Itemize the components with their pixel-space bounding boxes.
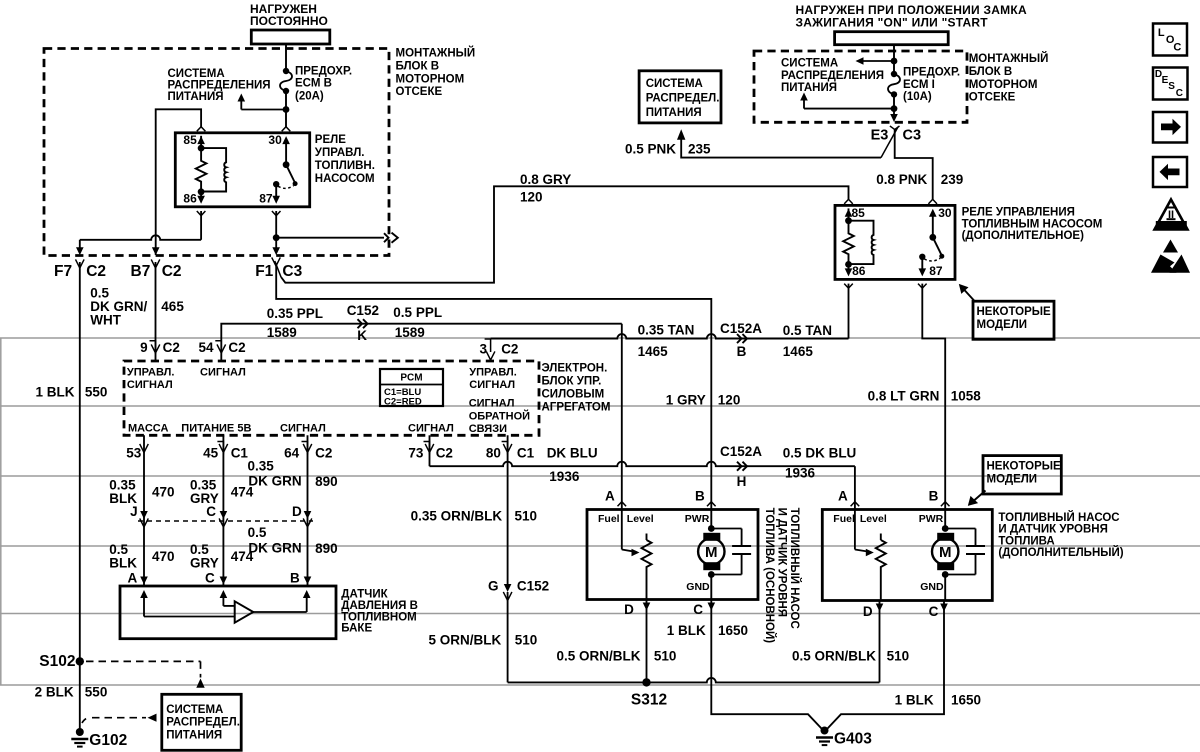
svg-text:0.5 PNK: 0.5 PNK xyxy=(625,142,676,157)
svg-text:9: 9 xyxy=(140,340,148,355)
svg-text:1 BLK: 1 BLK xyxy=(895,693,934,708)
svg-text:1936: 1936 xyxy=(549,469,580,484)
svg-text:54: 54 xyxy=(198,340,214,355)
svg-text:ПРЕДОХР.: ПРЕДОХР. xyxy=(295,66,352,78)
svg-text:УПРАВЛ.: УПРАВЛ. xyxy=(315,147,365,159)
connector F7 C2 xyxy=(76,259,85,268)
svg-text:НЕКОТОРЫЕ: НЕКОТОРЫЕ xyxy=(977,306,1052,318)
connector C152 dashed line xyxy=(138,520,313,522)
svg-text:0.35 PPL: 0.35 PPL xyxy=(267,306,323,321)
svg-text:ЗАЖИГАНИЯ "ON" ИЛИ "START: ЗАЖИГАНИЯ "ON" ИЛИ "START xyxy=(796,15,989,29)
svg-text:C2: C2 xyxy=(501,342,518,357)
fuse block МОНТАЖНЫЙ БЛОК В МОТОРНОМ ОТСЕКЕ left dashed box xyxy=(44,49,389,256)
svg-text:C: C xyxy=(1173,41,1181,53)
wire 0.35 TAN 1465 xyxy=(491,334,849,339)
connector E3 C3 xyxy=(890,126,900,130)
callout НЕКОТОРЫЕ МОДЕЛИ lower xyxy=(983,456,1061,494)
svg-text:МОНТАЖНЫЙ: МОНТАЖНЫЙ xyxy=(396,47,476,60)
svg-text:C2: C2 xyxy=(162,263,182,280)
svg-text:1 BLK: 1 BLK xyxy=(35,385,74,400)
wire 2 BLK 550 S102 to G102 xyxy=(79,661,81,729)
svg-text:ДАТЧИК: ДАТЧИК xyxy=(341,589,388,601)
svg-text:C2: C2 xyxy=(436,446,453,461)
svg-text:B: B xyxy=(290,571,300,586)
svg-text:C2: C2 xyxy=(228,340,245,355)
svg-text:СВЯЗИ: СВЯЗИ xyxy=(469,423,507,435)
wire 5 ORN/BLK 510 to S312 xyxy=(507,592,509,682)
box СИСТЕМА РАСПРЕДЕЛ. ПИТАНИЯ bottom xyxy=(162,694,241,750)
svg-text:B: B xyxy=(737,344,747,359)
wire relay K2 87 to 0.8 LT GRN 1058 xyxy=(918,284,927,289)
svg-text:Fuel: Fuel xyxy=(598,513,620,525)
svg-text:0.35: 0.35 xyxy=(248,459,275,474)
wire relay 87 to connector F1 xyxy=(272,211,281,216)
svg-text:470: 470 xyxy=(152,549,175,564)
svg-text:0.5 TAN: 0.5 TAN xyxy=(783,323,832,338)
fuel tank pressure sensor ДАТЧИК ДАВЛЕНИЯ В ТОПЛИВНОМ БАКЕ xyxy=(120,586,336,639)
svg-text:0.5 DK BLU: 0.5 DK BLU xyxy=(783,446,857,461)
svg-text:РАСПРЕДЕЛ.: РАСПРЕДЕЛ. xyxy=(166,717,240,729)
svg-text:C1: C1 xyxy=(517,446,535,461)
connector pin 64 C2 xyxy=(302,442,308,455)
svg-text:РЕЛЕ: РЕЛЕ xyxy=(315,134,346,146)
svg-text:F7: F7 xyxy=(54,263,72,280)
svg-text:E3: E3 xyxy=(871,128,889,144)
svg-text:C152: C152 xyxy=(347,303,379,318)
svg-text:510: 510 xyxy=(654,649,677,664)
svg-text:C1: C1 xyxy=(231,446,249,461)
svg-text:80: 80 xyxy=(486,446,501,461)
svg-text:C152A: C152A xyxy=(720,444,762,459)
svg-text:890: 890 xyxy=(315,474,338,489)
svg-text:B: B xyxy=(929,489,939,504)
svg-text:G403: G403 xyxy=(834,731,872,748)
svg-text:(ДОПОЛНИТЕЛЬНЫЙ): (ДОПОЛНИТЕЛЬНЫЙ) xyxy=(998,546,1123,559)
node S312 xyxy=(508,678,880,683)
svg-text:1589: 1589 xyxy=(267,325,297,340)
svg-text:Fuel: Fuel xyxy=(833,513,855,525)
svg-text:550: 550 xyxy=(85,685,108,700)
svg-text:АГРЕГАТОМ: АГРЕГАТОМ xyxy=(542,402,611,414)
wire bus to B7 and relay coil pin 85 xyxy=(156,109,201,255)
svg-text:ПИТАНИЯ: ПИТАНИЯ xyxy=(646,107,702,119)
svg-text:C2: C2 xyxy=(163,340,180,355)
svg-text:J: J xyxy=(130,504,138,519)
svg-text:1650: 1650 xyxy=(951,693,981,708)
svg-text:120: 120 xyxy=(520,190,543,205)
connector pin 9 C2 xyxy=(150,341,156,354)
svg-text:РАСПРЕДЕЛ.: РАСПРЕДЕЛ. xyxy=(646,93,720,105)
svg-text:C2=RED: C2=RED xyxy=(384,397,422,408)
svg-text:B7: B7 xyxy=(131,263,151,280)
icon back arrow button xyxy=(1153,157,1187,187)
wire 1 BLK 550 F7 to S102 xyxy=(79,281,81,661)
svg-text:PWR: PWR xyxy=(685,513,710,525)
svg-text:5 ORN/BLK: 5 ORN/BLK xyxy=(429,633,502,648)
ground G102 xyxy=(76,728,84,736)
wire 0.8 PNK 239 to relay K2 pin 30 xyxy=(895,130,933,200)
wire F1/C3 to 0.8 GRY 120 relay K2 coil xyxy=(281,186,849,282)
svg-text:D: D xyxy=(624,602,634,617)
svg-text:(10А): (10А) xyxy=(903,91,932,103)
svg-text:1465: 1465 xyxy=(783,344,814,359)
wire 0.35 ORN/BLK 510 PCM 80 down xyxy=(507,435,509,588)
wire 0.35 BLK 470 xyxy=(143,435,145,586)
svg-text:PWR: PWR xyxy=(919,513,944,525)
svg-text:ТОПЛИВНЫМ НАСОСОМ: ТОПЛИВНЫМ НАСОСОМ xyxy=(962,218,1103,230)
svg-text:СИГНАЛ: СИГНАЛ xyxy=(200,367,246,379)
ground G403 xyxy=(821,727,829,735)
svg-text:1650: 1650 xyxy=(718,623,748,638)
connector pin 80 C1 xyxy=(502,442,508,455)
svg-text:ТОПЛИВН.: ТОПЛИВН. xyxy=(315,160,375,172)
svg-text:0.8 GRY: 0.8 GRY xyxy=(520,172,571,187)
wire 0.35 GRY 474 xyxy=(222,435,224,586)
connector pin 45 C1 xyxy=(217,442,223,455)
svg-text:L: L xyxy=(1158,27,1165,39)
node S102 xyxy=(76,657,84,665)
svg-text:465: 465 xyxy=(161,299,184,314)
svg-text:МОНТАЖНЫЙ: МОНТАЖНЫЙ xyxy=(969,52,1049,65)
svg-text:СИГНАЛ: СИГНАЛ xyxy=(408,423,454,435)
connector F1 C3 xyxy=(272,257,281,266)
svg-text:ПОСТОЯННО: ПОСТОЯННО xyxy=(250,14,328,28)
svg-text:C: C xyxy=(929,604,939,619)
dashed reference S102 to power distribution xyxy=(86,660,201,662)
svg-text:OBD II: OBD II xyxy=(1160,221,1183,230)
fuse block МОНТАЖНЫЙ БЛОК dashed box right xyxy=(754,51,967,122)
svg-text:A: A xyxy=(128,571,138,586)
connector B7 C2 xyxy=(151,259,160,268)
svg-text:0.8 PNK: 0.8 PNK xyxy=(876,172,927,187)
svg-text:C152: C152 xyxy=(517,579,549,594)
svg-text:DK BLU: DK BLU xyxy=(547,446,598,461)
svg-text:85: 85 xyxy=(183,133,197,147)
svg-text:ЭЛЕКТРОН.: ЭЛЕКТРОН. xyxy=(542,363,608,375)
wire 0.35 DK GRN 890 xyxy=(307,435,309,586)
svg-text:C3: C3 xyxy=(903,128,922,144)
svg-text:D: D xyxy=(292,504,302,519)
callout НЕКОТОРЫЕ МОДЕЛИ upper xyxy=(964,289,975,301)
svg-text:МОТОРНОМ: МОТОРНОМ xyxy=(969,79,1038,91)
svg-text:ЕСМ I: ЕСМ I xyxy=(903,79,935,91)
svg-text:C: C xyxy=(1176,88,1183,99)
svg-text:S: S xyxy=(1168,81,1175,92)
svg-text:БЛОК В: БЛОК В xyxy=(396,60,440,72)
svg-text:C: C xyxy=(206,504,216,519)
wire ignition to fuse ECM I xyxy=(893,45,895,74)
svg-text:СИГНАЛ: СИГНАЛ xyxy=(469,398,515,410)
wire F1/C3 down to fuel pump PWR 1 GRY 120 xyxy=(276,266,711,510)
svg-text:СИСТЕМА: СИСТЕМА xyxy=(646,78,703,90)
svg-text:СИГНАЛ: СИГНАЛ xyxy=(280,423,326,435)
svg-text:СИГНАЛ: СИГНАЛ xyxy=(469,379,515,391)
svg-text:M: M xyxy=(705,544,718,561)
svg-text:(20А): (20А) xyxy=(295,90,324,102)
svg-text:БАКЕ: БАКЕ xyxy=(341,623,372,635)
svg-text:S312: S312 xyxy=(631,692,667,709)
svg-text:СИГНАЛ: СИГНАЛ xyxy=(127,379,173,391)
svg-text:2 BLK: 2 BLK xyxy=(35,685,74,700)
svg-text:K: K xyxy=(357,328,367,343)
node fuse output junction xyxy=(283,106,290,113)
svg-text:РАСПРЕДЕЛЕНИЯ: РАСПРЕДЕЛЕНИЯ xyxy=(168,80,271,92)
svg-text:890: 890 xyxy=(315,541,338,556)
svg-text:СИСТЕМА: СИСТЕМА xyxy=(168,68,225,80)
svg-text:C3: C3 xyxy=(282,263,302,280)
svg-text:C152A: C152A xyxy=(720,321,762,336)
svg-text:0.35 ORN/BLK: 0.35 ORN/BLK xyxy=(411,509,503,524)
svg-text:1589: 1589 xyxy=(395,325,425,340)
svg-text:РЕЛЕ УПРАВЛЕНИЯ: РЕЛЕ УПРАВЛЕНИЯ xyxy=(962,207,1075,219)
svg-text:45: 45 xyxy=(203,446,219,461)
svg-text:МАССА: МАССА xyxy=(128,423,168,435)
svg-text:235: 235 xyxy=(688,142,711,157)
svg-text:GND: GND xyxy=(686,581,710,593)
svg-text:ДАВЛЕНИЯ В: ДАВЛЕНИЯ В xyxy=(341,600,418,612)
svg-text:64: 64 xyxy=(284,446,300,461)
svg-text:ОБРАТНОЙ: ОБРАТНОЙ xyxy=(469,410,530,423)
icon LOC button xyxy=(1153,24,1187,56)
dashed reference G102 to power distribution xyxy=(82,718,90,723)
svg-text:30: 30 xyxy=(268,133,282,147)
wire 0.35 PPL 1589 PCM pin 54 xyxy=(221,324,622,361)
svg-text:МОДЕЛИ: МОДЕЛИ xyxy=(977,319,1028,331)
svg-text:G: G xyxy=(488,579,499,594)
svg-text:550: 550 xyxy=(85,385,108,400)
svg-text:510: 510 xyxy=(515,509,538,524)
svg-text:1 BLK: 1 BLK xyxy=(667,623,706,638)
svg-text:F1: F1 xyxy=(255,263,273,280)
svg-text:B: B xyxy=(695,489,705,504)
svg-text:470: 470 xyxy=(152,485,175,500)
wire relay 86 to connector F7 xyxy=(197,211,206,216)
svg-text:1936: 1936 xyxy=(785,466,816,481)
svg-text:30: 30 xyxy=(938,206,952,220)
svg-text:C2: C2 xyxy=(86,263,106,280)
svg-text:D: D xyxy=(863,604,873,619)
wire fuse to connector E3 xyxy=(893,109,895,118)
svg-text:87: 87 xyxy=(929,264,943,278)
svg-text:PCM: PCM xyxy=(400,373,422,384)
svg-text:Level: Level xyxy=(860,513,887,525)
node ignition junction xyxy=(891,58,898,65)
page grid lines xyxy=(0,337,1200,339)
svg-text:ПИТАНИЯ: ПИТАНИЯ xyxy=(781,82,837,94)
svg-text:C: C xyxy=(693,602,703,617)
svg-text:239: 239 xyxy=(941,172,964,187)
svg-text:0.5 ORN/BLK: 0.5 ORN/BLK xyxy=(792,649,876,664)
svg-text:GND: GND xyxy=(920,581,944,593)
wire 0.5 PPL 1589 down to main pump Level pin A xyxy=(621,324,623,510)
svg-text:86: 86 xyxy=(183,191,197,205)
PCM ЭЛЕКТРОН. БЛОК УПР. СИЛОВЫМ АГРЕГАТОМ dashed box xyxy=(124,361,539,435)
ignition feed box xyxy=(835,32,949,45)
svg-text:BLK: BLK xyxy=(109,556,137,571)
svg-text:(ДОПОЛНИТЕЛЬНОЕ): (ДОПОЛНИТЕЛЬНОЕ) xyxy=(962,230,1084,242)
connector pin 53 xyxy=(140,444,149,453)
svg-text:СИСТЕМА: СИСТЕМА xyxy=(781,58,838,70)
wire 0.5 TAN 1465 to relay K2 pin 86 xyxy=(848,284,850,339)
svg-text:1 GRY: 1 GRY xyxy=(666,393,706,408)
svg-text:120: 120 xyxy=(718,393,741,408)
wire 0.5 DK GRN/WHT 465 B7 to PCM pin 9 xyxy=(155,281,157,361)
svg-text:ТОПЛИВА: ТОПЛИВА xyxy=(998,535,1054,547)
svg-text:3: 3 xyxy=(479,342,487,357)
svg-text:БЛОК В: БЛОК В xyxy=(969,66,1013,78)
svg-text:ЕСМ В: ЕСМ В xyxy=(295,78,332,90)
svg-text:ТОПЛИВНЫЙ НАСОС: ТОПЛИВНЫЙ НАСОС xyxy=(998,511,1119,524)
battery feed box B+ xyxy=(251,30,329,44)
relay K2 РЕЛЕ УПРАВЛЕНИЯ ТОПЛИВНЫМ НАСОСОМ ДОПОЛНИТЕЛЬНОЕ xyxy=(835,205,955,279)
svg-text:МОТОРНОМ: МОТОРНОМ xyxy=(396,73,465,85)
svg-text:0.5 ORN/BLK: 0.5 ORN/BLK xyxy=(556,649,640,664)
wire battery to fuse ECM B xyxy=(285,44,287,71)
fuse ЕСМ I 10А xyxy=(891,71,897,77)
svg-text:1058: 1058 xyxy=(951,389,982,404)
sensor internal amplifier xyxy=(143,598,145,617)
icon DESC button xyxy=(1153,68,1188,100)
relay K1 РЕЛЕ УПРАВЛ. ТОПЛИВН. НАСОСОМ xyxy=(175,133,309,207)
svg-text:ПИТАНИЯ: ПИТАНИЯ xyxy=(168,91,224,103)
svg-text:A: A xyxy=(838,489,848,504)
arrow to power distribution xyxy=(238,94,246,102)
svg-text:Level: Level xyxy=(627,513,654,525)
svg-text:87: 87 xyxy=(259,191,273,205)
svg-text:85: 85 xyxy=(852,206,866,220)
svg-text:0.8 LT GRN: 0.8 LT GRN xyxy=(868,389,940,404)
wire 0.5 DK BLU 1936 to aux pump Level pin A xyxy=(854,466,856,509)
svg-text:DK GRN: DK GRN xyxy=(248,474,301,489)
svg-text:86: 86 xyxy=(852,264,866,278)
svg-text:DK GRN: DK GRN xyxy=(248,541,301,556)
node fuse ECM I output junction xyxy=(891,105,898,112)
wire B7 feed xyxy=(152,247,160,255)
svg-text:СИЛОВЫМ: СИЛОВЫМ xyxy=(542,389,605,401)
svg-text:M: M xyxy=(939,544,952,561)
wire fuse to relay K1 pin 30 xyxy=(285,91,287,127)
svg-text:УПРАВЛ.: УПРАВЛ. xyxy=(127,367,175,379)
svg-text:1465: 1465 xyxy=(638,344,669,359)
svg-text:0.35 TAN: 0.35 TAN xyxy=(638,322,695,337)
svg-text:УПРАВЛ.: УПРАВЛ. xyxy=(469,367,517,379)
node relay87 junction to off-page arrow xyxy=(273,234,280,241)
icon ESD warning xyxy=(1163,240,1178,253)
wire 0.5 PNK 235 xyxy=(681,140,881,158)
svg-text:0.5 PPL: 0.5 PPL xyxy=(393,305,442,320)
svg-text:H: H xyxy=(737,474,747,489)
svg-text:C2: C2 xyxy=(315,446,332,461)
svg-text:ОТСЕКЕ: ОТСЕКЕ xyxy=(396,86,443,98)
connector pin 3 C2 xyxy=(485,339,491,352)
svg-text:БЛОК УПР.: БЛОК УПР. xyxy=(542,376,602,388)
svg-text:0.5: 0.5 xyxy=(248,525,267,540)
svg-text:МОДЕЛИ: МОДЕЛИ xyxy=(987,474,1038,486)
PCM connector legend box C1=BLU C2=RED xyxy=(380,369,443,406)
svg-text:53: 53 xyxy=(126,446,142,461)
svg-text:73: 73 xyxy=(408,446,424,461)
svg-text:СИСТЕМА: СИСТЕМА xyxy=(166,704,223,716)
svg-text:ПРЕДОХР.: ПРЕДОХР. xyxy=(903,67,960,79)
svg-text:GRY: GRY xyxy=(190,556,219,571)
svg-text:РАСПРЕДЕЛЕНИЯ: РАСПРЕДЕЛЕНИЯ xyxy=(781,70,884,82)
svg-text:510: 510 xyxy=(515,633,538,648)
svg-text:A: A xyxy=(605,489,615,504)
fuse ЕСМ В 20А xyxy=(283,68,289,74)
svg-text:И ДАТЧИК УРОВНЯ: И ДАТЧИК УРОВНЯ xyxy=(998,524,1107,536)
box СИСТЕМА РАСПРЕДЕЛ. ПИТАНИЯ middle xyxy=(639,71,721,123)
arrow to power distribution right xyxy=(800,93,808,101)
svg-text:ОТСЕКЕ: ОТСЕКЕ xyxy=(969,92,1016,104)
svg-text:НАСОСОМ: НАСОСОМ xyxy=(315,173,375,185)
svg-text:ПИТАНИЯ: ПИТАНИЯ xyxy=(166,729,222,741)
svg-text:510: 510 xyxy=(887,649,910,664)
svg-text:ПИТАНИЕ 5В: ПИТАНИЕ 5В xyxy=(181,423,251,435)
icon next arrow button xyxy=(1153,112,1187,143)
wire DK BLU 1936 PCM 73 to C152A H xyxy=(429,435,431,452)
icon OBD II xyxy=(1155,200,1188,230)
svg-text:S102: S102 xyxy=(39,653,75,670)
svg-text:НЕКОТОРЫЕ: НЕКОТОРЫЕ xyxy=(987,461,1062,473)
svg-text:WHT: WHT xyxy=(90,313,121,328)
svg-text:C: C xyxy=(205,571,215,586)
svg-text:ТОПЛИВНОМ: ТОПЛИВНОМ xyxy=(341,611,416,623)
svg-text:G102: G102 xyxy=(89,732,127,749)
connector pin 73 C2 xyxy=(424,442,430,455)
